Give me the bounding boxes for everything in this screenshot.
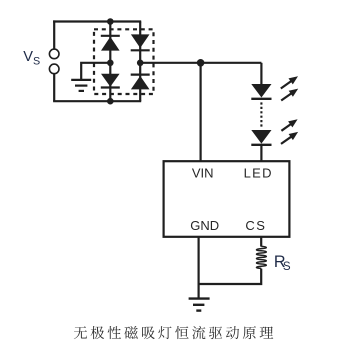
diode D2 (bridge left-bottom, pointing down) triangle bbox=[101, 74, 120, 87]
svg-text:GND: GND bbox=[190, 218, 219, 233]
diode D4 (bridge right-bottom, pointing up) triangle bbox=[131, 76, 150, 90]
wire CS pin to resistor bbox=[260, 237, 262, 247]
LED2 emission arrow upper bbox=[281, 124, 291, 131]
svg-text:V: V bbox=[23, 49, 33, 65]
svg-text:LED: LED bbox=[244, 165, 273, 180]
junction dot bridge left mid node bbox=[107, 60, 114, 67]
svg-text:S: S bbox=[283, 260, 291, 273]
junction dot bridge bottom node bbox=[107, 98, 114, 105]
wire left vertical lower (Vs terminal to bottom wire) bbox=[53, 74, 55, 101]
wire bridge right mid node to LED string top bbox=[140, 62, 261, 64]
diode D3 (bridge right-top, pointing down) triangle bbox=[131, 34, 150, 48]
wire VIN drop bbox=[200, 63, 202, 162]
wire dotted LED-string continuation bbox=[260, 102, 262, 128]
junction dot bridge right mid node bbox=[137, 60, 144, 67]
resistor RS coil body bbox=[256, 246, 266, 268]
AC source Vs terminal circle (bottom) bbox=[49, 64, 59, 74]
wire resistor bottom to ground rail bbox=[199, 269, 262, 284]
wire GND pin drop bbox=[198, 237, 200, 299]
bridge rectifier dashed outline box bbox=[94, 29, 154, 94]
diode D2 cathode bar bbox=[101, 86, 120, 88]
junction dot bridge top node bbox=[107, 18, 114, 25]
diode D1 cathode bar bbox=[101, 35, 120, 37]
LED1 emission arrow lower bbox=[281, 93, 292, 101]
wire bridge left column bbox=[109, 22, 111, 102]
wire LED string upper segment bbox=[260, 63, 262, 85]
ground symbol (bridge left mid node) bbox=[71, 79, 91, 81]
svg-text:S: S bbox=[33, 56, 40, 68]
diode D1 (bridge left-top, pointing up) triangle bbox=[101, 37, 120, 51]
LED LED1 cathode bar bbox=[251, 98, 271, 100]
LED LED2 cathode bar bbox=[251, 144, 271, 146]
junction dot VIN tap node bbox=[197, 59, 205, 67]
caption text: 无极性磁吸灯恒流驱动原理 bbox=[74, 326, 273, 339]
svg-text:VIN: VIN bbox=[192, 165, 214, 180]
LED1 emission arrow upper bbox=[281, 81, 292, 89]
wire LED string lower segment to LED pin bbox=[260, 145, 262, 162]
LED LED2 triangle (pointing down) bbox=[251, 130, 271, 144]
wire top (Vs+ to bridge top) bbox=[53, 20, 141, 22]
LED LED1 triangle (pointing down) bbox=[251, 84, 271, 98]
wire bridge right column bbox=[139, 22, 141, 102]
ground symbol (main, below GND pin) bbox=[189, 297, 210, 299]
svg-text:CS: CS bbox=[245, 218, 266, 233]
wire bridge left mid node to ground bbox=[81, 63, 110, 80]
wire left vertical upper (top wire to Vs terminal) bbox=[53, 20, 55, 49]
wire bottom (Vs- to bridge bottom) bbox=[53, 100, 141, 102]
AC source Vs terminal circle (top) bbox=[49, 49, 59, 59]
diode D4 cathode bar bbox=[131, 73, 150, 75]
LED2 emission arrow lower bbox=[281, 136, 292, 144]
diode D3 cathode bar bbox=[131, 49, 150, 51]
op-amp/driver IC U1 body bbox=[164, 161, 290, 237]
